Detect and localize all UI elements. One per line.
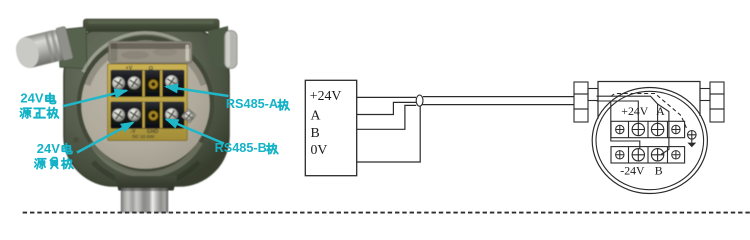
internal wire to B terminal [658, 104, 669, 155]
photo: earth screw on face [181, 108, 196, 123]
cable upper conductor line [423, 96, 574, 98]
svg-text:B: B [655, 164, 663, 178]
wire 0V from box to cable node [357, 106, 421, 162]
lower terminal 4 screw [672, 151, 680, 159]
svg-text:A: A [311, 108, 321, 123]
callout text 24V电 (line 1, -24V supply) [37, 141, 72, 156]
photo: flowmeter transmitter housing (green body) [64, 26, 229, 187]
svg-text:RS485-A: RS485-A [226, 97, 278, 111]
photo: round face plate (grey recess) [79, 33, 212, 185]
drawing border dashed line [23, 212, 750, 214]
photo: screw 24V+ (upper row 1) [112, 77, 125, 90]
upper terminal 1 screw [616, 125, 624, 133]
svg-text:A: A [656, 104, 665, 118]
photo: display window opening [109, 42, 192, 63]
photo: cable gland (grey, top-left) [13, 26, 73, 71]
callout text RS485-B极 [215, 141, 278, 155]
photo: screw lower row 4 [165, 108, 178, 121]
internal wire to -24V terminal [611, 101, 640, 149]
lower terminal 1 screw [616, 151, 624, 159]
svg-text:+24V: +24V [621, 104, 648, 118]
internal wire to +24V terminal [597, 101, 639, 123]
photo: brass terminal RS485-A (upper) [147, 78, 160, 91]
callout arrow to 24V+ screw [63, 91, 127, 107]
lower terminal 3 screw (B) [651, 149, 663, 161]
wire B from box to cable node [357, 105, 417, 129]
upper terminal strip [611, 121, 685, 137]
photo: terminal PCB (yellow) [108, 64, 188, 141]
lower terminal 2 screw (-24V) [632, 149, 644, 161]
transmitter face inner circle [596, 91, 704, 189]
transmitter body outline [598, 82, 700, 119]
power supply box [305, 80, 356, 175]
photo: brass terminal RS485-B (lower) [147, 109, 160, 122]
upper terminal 2 screw (+24V) [632, 123, 644, 135]
earth terminal symbol [687, 131, 696, 148]
callout arrow to RS485-A terminal [166, 87, 229, 96]
transmitter face outer circle [592, 88, 707, 194]
cable bundle node (ellipse) [416, 95, 423, 106]
svg-text:0V: 0V [311, 142, 328, 157]
upper terminal 4 screw [672, 125, 680, 133]
photo: left conduit boss [58, 27, 87, 69]
photo: lower terminal block row [111, 102, 185, 129]
photo: top mounting bar [84, 19, 220, 31]
transmitter left cable-gland flange [574, 82, 598, 122]
callout text 源正极 (line 2, +24V supply) [20, 107, 58, 118]
shield wire (dashed) to earth [611, 94, 687, 129]
callout arrow to 24V- screw [77, 123, 133, 153]
wire +24V from box to cable node [357, 96, 416, 98]
photo: stainless stem tube [121, 188, 168, 213]
svg-text:DC 12-24V: DC 12-24V [132, 134, 154, 139]
photo: right conduit boss with grey plug [208, 26, 237, 69]
transmitter right flange [700, 82, 724, 122]
wire A from box to cable node [357, 102, 417, 114]
svg-text:24V: 24V [20, 91, 43, 106]
photo: neck flange below housing [115, 176, 178, 191]
internal wire to A terminal [597, 96, 658, 123]
svg-text:24V: 24V [37, 141, 60, 156]
lower terminal strip [611, 147, 685, 163]
cable lower conductor line [423, 104, 575, 106]
upper terminal 3 screw (A) [651, 123, 663, 135]
photo: rim bolts [73, 137, 79, 143]
callout text 24V电 (line 1, +24V supply) [20, 91, 55, 106]
photo: upper terminal block row [111, 70, 185, 97]
callout arrow to RS485-B terminal [166, 119, 224, 143]
svg-text:+24V: +24V [310, 88, 342, 103]
photo: screw upper row 2 [128, 76, 141, 89]
callout text RS485-A极 [226, 97, 289, 111]
callout text 源负极 (line 2, -24V supply) [35, 158, 73, 169]
photo: screw upper row 4 [165, 75, 178, 88]
photo: screw 24V- (lower row 1) [112, 109, 125, 122]
photo: screw lower row 2 [128, 108, 141, 121]
svg-text:B: B [311, 125, 320, 140]
svg-text:-24V: -24V [620, 164, 645, 178]
